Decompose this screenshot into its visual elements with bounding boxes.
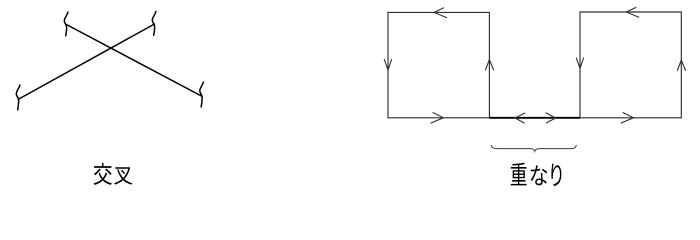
label glyph な [531,165,548,185]
break squiggle at segment A top-left end [64,12,68,36]
arrow left square left edge (pointing down) [384,59,391,70]
arrow left square top (pointing left) [434,8,447,18]
wire: crossing segment B (bottom-left to top-right) [20,24,155,99]
arrow overlap leftward (pointing left) [515,113,525,123]
arrow right square bottom (pointing right) [621,113,633,123]
break squiggle at segment A bottom-right end [200,82,204,107]
label glyph り [551,164,561,186]
wire: overlap segment (shared bottom edge, drawn bold) [489,117,580,119]
label glyph 叉 [114,167,132,184]
break squiggle at segment B top-right end [152,12,156,36]
right square outline [580,12,681,118]
arrow right square left edge (pointing down) [576,58,583,69]
underbrace marking the overlap [491,145,576,151]
wire: crossing segment A (top-left to bottom-right) [66,25,201,97]
arrow left square bottom (pointing right) [431,113,443,123]
label glyph 重 [511,163,527,186]
arrow left square right edge (pointing up) [486,60,494,70]
arrow right square top (pointing left) [626,8,639,18]
left square outline [388,12,489,117]
arrow overlap rightward (pointing right) [546,113,556,123]
arrow right square right edge (pointing up) [677,60,685,70]
break squiggle at segment B bottom-left end [16,85,20,110]
label glyph 交 [94,163,112,185]
